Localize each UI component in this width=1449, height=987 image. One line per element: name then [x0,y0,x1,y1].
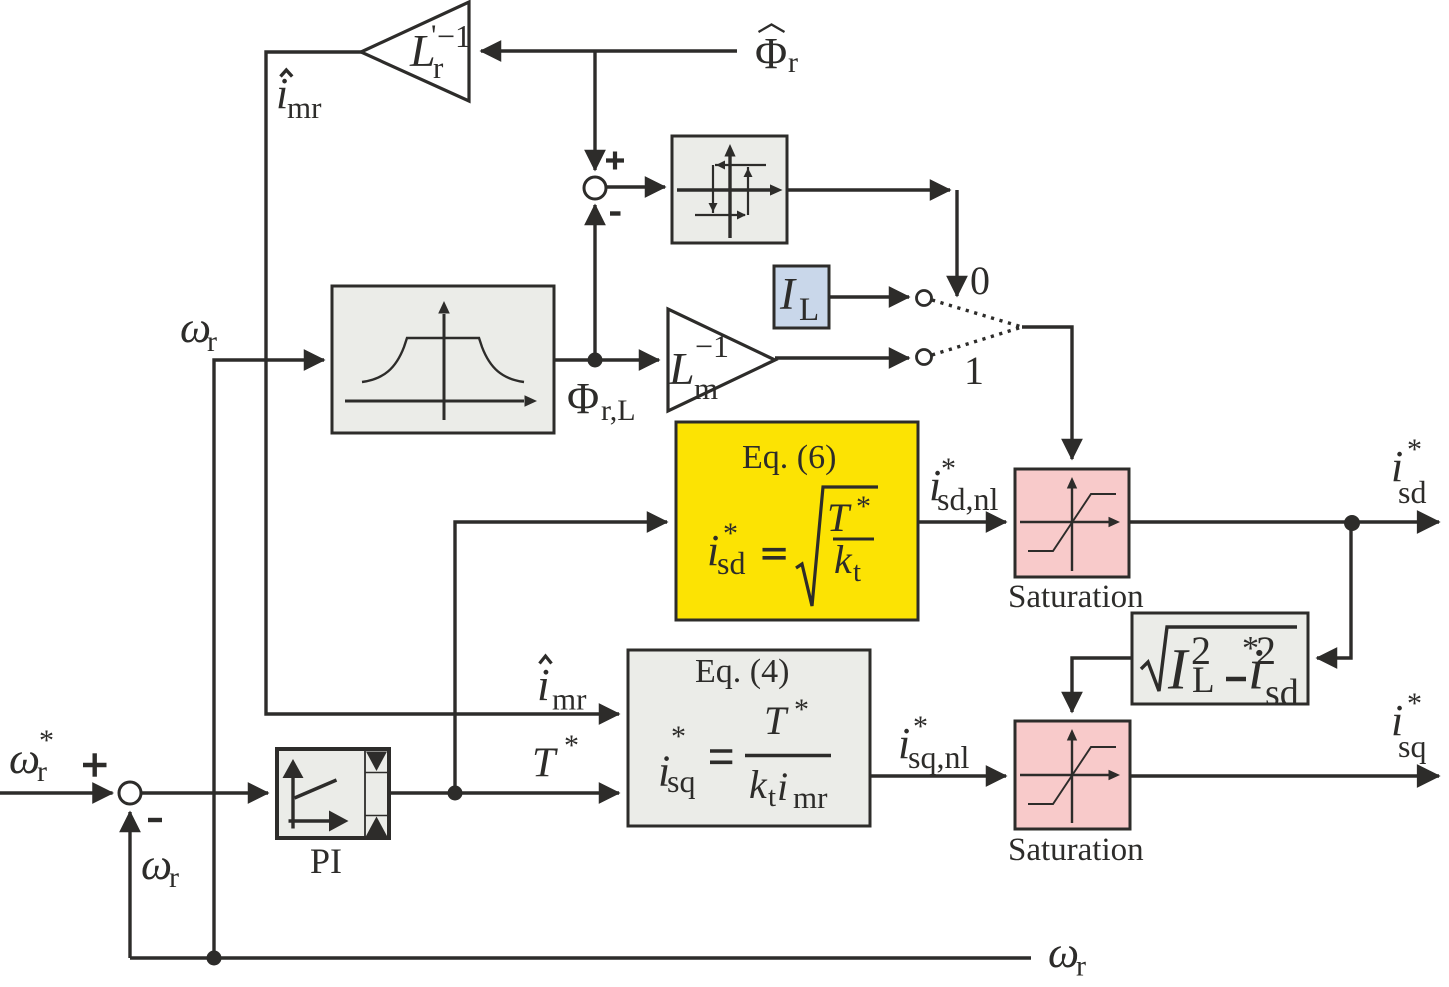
junction dot i_sd* [1344,515,1360,531]
svg-text:*: * [1407,433,1422,466]
svg-text:Saturation: Saturation [1008,832,1144,868]
wire summing junction 2 output to PI block [140,791,268,794]
saturation block 2 [1015,721,1130,829]
wire phi_r_hat input to L_r triangle [481,49,737,52]
svg-text:*: * [1407,687,1422,720]
wire L_m triangle output to lower switch contact [775,356,909,359]
svg-text:Eq. (6): Eq. (6) [742,439,836,476]
svg-text:Eq. (4): Eq. (4) [695,653,789,690]
label T* at Eq4 input [532,729,579,787]
summing junction 1 circle [584,177,606,199]
svg-text:Saturation: Saturation [1008,579,1144,615]
label omega_r feedback left [141,840,179,894]
label i_mr_hat top left [276,69,322,125]
wire i_sd* branch down into sqrt block [1317,522,1351,658]
gain triangle L_r'-1 [361,2,471,101]
svg-text:k: k [749,762,768,807]
wire branch from phi_r_hat down to summing junction plus input [593,51,596,170]
gain triangle L_m^-1 [668,309,775,411]
svg-text:2: 2 [1256,628,1276,673]
label plus at summing junction 1 [606,152,624,170]
svg-text:r: r [37,755,47,788]
label omega_r* input [9,724,54,788]
svg-text:*: * [794,693,809,726]
label i_mr_hat at Eq4 input [537,656,587,717]
label phi_r_L [567,374,636,427]
wire omega_r vertical from bottom feedback up and right into flux block [214,360,324,958]
svg-text:T: T [827,495,852,540]
svg-text:mr: mr [287,90,322,125]
svg-text:sq: sq [667,763,695,799]
svg-text:T: T [764,698,789,743]
label minus at summing junction 1 [610,211,621,215]
label omega_r bottom right [1048,928,1086,983]
summing junction 2 circle [119,782,141,804]
svg-text:Φ: Φ [755,29,787,78]
wire flux block output to L_m triangle [554,358,659,361]
svg-text:sq,nl: sq,nl [908,739,969,775]
svg-text:r: r [169,861,179,894]
svg-text:t: t [768,781,776,813]
relay hysteresis block [672,136,787,243]
wire omega_r feedback up to summing junction 2 minus input [128,812,131,958]
switch dotted line from contact 0 to pivot [932,300,1022,327]
svg-text:L: L [799,292,819,328]
label i_sq* output [1391,687,1426,764]
svg-text:2: 2 [1191,628,1211,673]
label omega_r top left [180,303,217,358]
svg-text:T: T [532,741,558,787]
svg-text:r: r [788,46,798,79]
svg-text:PI: PI [310,841,342,881]
PI controller block [277,749,389,838]
svg-text:mr: mr [552,682,587,717]
wire saturation 2 output i_sq* to right edge [1130,774,1439,777]
label phi_r_hat top right [755,25,798,80]
svg-text:i: i [777,764,788,809]
wire Eq6 output to saturation 1 [918,520,1006,523]
svg-text:0: 0 [970,258,990,303]
svg-text:r: r [207,325,217,358]
saturation block 1 [1015,469,1129,577]
wire saturation 1 output i_sd* to right edge [1129,520,1439,523]
svg-text:sq: sq [1398,728,1426,764]
svg-text:k: k [834,537,853,582]
label plus at summing junction 2 [83,753,107,776]
svg-text:sd: sd [1398,474,1426,510]
svg-text:m: m [694,371,718,406]
svg-text:i: i [537,659,550,710]
svg-text:*: * [671,720,686,753]
junction dot flux output [588,353,603,368]
wire PI output T* to Eq4 input [389,791,619,794]
svg-text:mr: mr [793,780,828,815]
wire summing junction 1 output to relay block [605,185,665,188]
svg-text:sd: sd [1265,672,1299,714]
svg-text:r,L: r,L [601,394,636,427]
wire relay output corner down to switch contact 0 [955,190,958,296]
wire switch pivot to saturation 1 top [1022,327,1072,459]
svg-text:1: 1 [964,348,984,393]
sqrt limit block [1132,613,1308,714]
label minus at summing junction 2 [148,818,162,822]
label i_sd* output [1391,433,1426,510]
svg-text:*: * [856,490,871,523]
svg-text:sd: sd [717,545,745,581]
svg-text:L: L [668,343,695,394]
svg-text:ω: ω [141,840,172,889]
label i_sd_nl* [929,452,998,517]
svg-text:I: I [1167,637,1190,702]
wire omega_r* input to summing junction 2 [0,791,113,794]
svg-text:I: I [779,269,797,319]
flux curve block [332,286,554,433]
svg-text:sd,nl: sd,nl [937,481,998,517]
svg-text:ω: ω [1048,928,1079,977]
wire Eq4 output to saturation 2 [870,774,1006,777]
wire relay output right [787,188,950,191]
wire i_mr from L_r triangle tip left and down to Eq4 input [266,52,619,714]
junction dot omega_r bottom [207,951,222,966]
svg-text:−1: −1 [437,18,471,54]
svg-text:Φ: Φ [567,374,599,423]
wire omega_r feedback bottom line [130,956,1031,959]
svg-text:−1: −1 [695,328,729,364]
svg-text:r: r [1076,950,1086,983]
wire T* branch up into yellow Eq6 block [455,522,667,793]
yellow Eq. (6) block [676,422,918,620]
wire sqrt block output to saturation 2 top [1072,658,1132,712]
switch dotted line from contact 1 to pivot [932,327,1022,355]
I_L constant block [774,266,829,328]
svg-text:': ' [431,19,436,52]
Eq. (4) block [628,650,870,826]
junction dot T* [448,786,463,801]
svg-text:ω: ω [9,734,40,783]
svg-text:r: r [433,50,444,85]
wire flux output branch up to summing junction minus input [593,205,596,360]
svg-text:*: * [564,729,579,762]
label i_sq_nl* [898,710,969,775]
wire I_L block to upper switch contact [829,295,909,298]
svg-text:*: * [39,724,54,757]
svg-text:t: t [853,556,861,588]
switch contact circle 0 [917,291,932,306]
switch contact circle 1 [917,350,932,365]
